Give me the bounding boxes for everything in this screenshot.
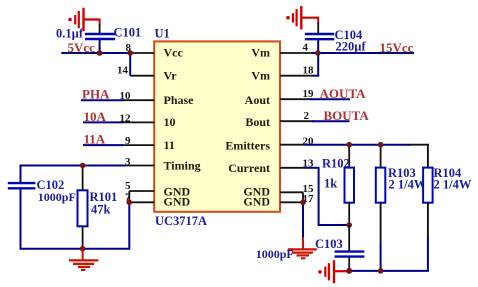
resistor R104 <box>423 144 433 271</box>
svg-text:Emitters: Emitters <box>225 138 270 152</box>
capacitor C101 <box>85 34 115 53</box>
svg-text:R102: R102 <box>322 157 350 171</box>
svg-text:Vm: Vm <box>251 46 270 60</box>
svg-text:Timing: Timing <box>164 159 201 173</box>
resistor R103 <box>376 145 386 271</box>
wire 5Vcc rail <box>61 52 131 54</box>
wire pin8 to pin14 branch <box>129 53 131 76</box>
svg-text:5: 5 <box>125 180 131 192</box>
designator U1 <box>155 27 170 41</box>
pin 3 Timing <box>124 156 201 173</box>
net label BOUTA <box>324 108 370 123</box>
ground GND2 (earth, red) <box>288 237 317 258</box>
wire AOUTA <box>310 98 350 100</box>
net label 5Vcc <box>68 40 96 55</box>
power symbol P1 (5V rail, bar style) <box>68 8 100 31</box>
value 2 1/4W (R104) <box>434 178 472 192</box>
wire I1A <box>83 144 123 146</box>
svg-text:Phase: Phase <box>164 93 195 107</box>
svg-text:2 1/4W: 2 1/4W <box>389 178 427 192</box>
capacitor C102 <box>8 183 36 188</box>
junction C103/ground rail <box>346 268 352 274</box>
svg-text:2 1/4W: 2 1/4W <box>434 178 472 192</box>
part number UC3717A <box>155 214 207 228</box>
svg-text:Bout: Bout <box>245 115 270 129</box>
wire R102 to C103 <box>348 225 350 251</box>
wire bottom left rail <box>21 248 130 250</box>
net label PHA <box>82 87 110 102</box>
wire bottom right rail <box>349 270 429 272</box>
resistor R102 <box>345 145 355 225</box>
value 47k <box>91 203 111 217</box>
wire left vertical (Timing to bottom) <box>20 165 22 250</box>
svg-text:1000pF: 1000pF <box>38 190 76 204</box>
junction Emitters/R103 <box>378 142 384 148</box>
label C103 <box>315 237 343 251</box>
pin 15 GND <box>243 183 314 199</box>
svg-text:9: 9 <box>125 135 131 147</box>
wire GND pins 5/7 drop <box>128 191 130 250</box>
svg-text:Vr: Vr <box>164 68 178 82</box>
net label I0A <box>84 109 107 124</box>
label R103 <box>388 166 416 180</box>
value 1000pF (C102) <box>38 190 76 204</box>
net label 15Vcc <box>380 40 414 55</box>
pin 5 GND <box>125 180 191 199</box>
wire Timing rail <box>21 165 126 167</box>
value 1000pF (C103) <box>256 247 294 261</box>
net label I1A <box>84 131 106 146</box>
pin 7 GND <box>125 191 191 208</box>
pin 13 Current <box>228 157 314 175</box>
svg-text:GND: GND <box>243 195 270 209</box>
junction Timing/R101 <box>80 163 86 169</box>
wire I0A <box>83 121 123 123</box>
svg-text:Vcc: Vcc <box>164 46 184 60</box>
net label AOUTA <box>320 86 367 101</box>
svg-text:1000pF: 1000pF <box>256 247 294 261</box>
capacitor C103 <box>335 252 365 271</box>
svg-text:47k: 47k <box>91 203 111 217</box>
ground GND1 (earth, red) <box>69 249 99 270</box>
junction R103/ground rail <box>378 268 384 274</box>
pin 14 Vr <box>117 65 177 83</box>
wire Current route <box>305 168 349 226</box>
junction Current/R102 <box>346 222 352 228</box>
pin 8 Vcc <box>126 42 184 60</box>
power symbol P3 (ground bar style at C103) <box>318 260 349 283</box>
junction 5Vcc/branch <box>127 50 133 56</box>
pin 12 I0 <box>120 112 176 129</box>
pin 18 Vm <box>251 65 314 83</box>
svg-text:Aout: Aout <box>245 93 270 107</box>
wire PHA <box>81 99 123 101</box>
svg-text:0.1µf: 0.1µf <box>56 27 84 41</box>
svg-text:C103: C103 <box>315 237 343 251</box>
svg-text:GND: GND <box>164 195 191 209</box>
svg-text:15Vcc: 15Vcc <box>380 40 414 55</box>
svg-text:UC3717A: UC3717A <box>155 214 207 228</box>
wire power to C101 <box>99 24 101 33</box>
junction pins 5/7 <box>127 200 133 206</box>
power symbol P2 (15V rail, bar style) <box>286 6 319 29</box>
capacitor C104 <box>305 34 334 53</box>
value 220uf <box>336 40 367 54</box>
pin 2 Bout <box>245 110 314 129</box>
svg-text:11: 11 <box>164 138 175 152</box>
wire power to C104 <box>317 23 319 34</box>
pin 17 GND <box>243 193 314 209</box>
IC U1 body <box>154 41 280 211</box>
label R101 <box>90 190 118 204</box>
wire 15Vcc rail <box>312 52 414 54</box>
svg-text:14: 14 <box>117 65 129 77</box>
junction 15Vcc/C104 <box>315 50 321 56</box>
pin 20 Emitters <box>225 135 314 152</box>
junction bottom-left ground <box>80 246 86 252</box>
svg-text:Vm: Vm <box>251 68 270 82</box>
svg-text:4: 4 <box>303 42 309 54</box>
wire GND pins 15/17 drop <box>302 192 304 237</box>
svg-text:10: 10 <box>164 115 176 129</box>
svg-text:2: 2 <box>304 110 310 122</box>
resistor R101 <box>78 166 88 249</box>
pin 10 Phase <box>120 90 195 107</box>
wire Emitters rail <box>305 144 429 146</box>
svg-text:1k: 1k <box>324 177 337 191</box>
svg-text:C101: C101 <box>114 26 142 40</box>
svg-text:3: 3 <box>125 156 131 168</box>
value 0.1uf <box>56 27 84 41</box>
junction Emitters/R102 <box>346 142 352 148</box>
pin 4 Vm <box>251 42 312 60</box>
label C102 <box>37 178 65 192</box>
svg-text:Current: Current <box>228 161 270 175</box>
pin 9 I1 <box>122 135 175 152</box>
label R102 <box>322 157 350 171</box>
label C101 <box>114 26 142 40</box>
wire BOUTA <box>312 120 350 122</box>
wire pin18 to rail branch <box>312 53 319 76</box>
value 2 1/4W (R103) <box>389 178 427 192</box>
label C104 <box>335 28 364 42</box>
value 1k <box>324 177 337 191</box>
label R104 <box>434 166 463 180</box>
pin 19 Aout <box>245 88 314 107</box>
junction 5Vcc/C101 <box>97 50 103 56</box>
svg-text:220µf: 220µf <box>336 40 367 54</box>
junction pins 15/17 <box>300 200 306 206</box>
svg-text:U1: U1 <box>155 27 170 41</box>
